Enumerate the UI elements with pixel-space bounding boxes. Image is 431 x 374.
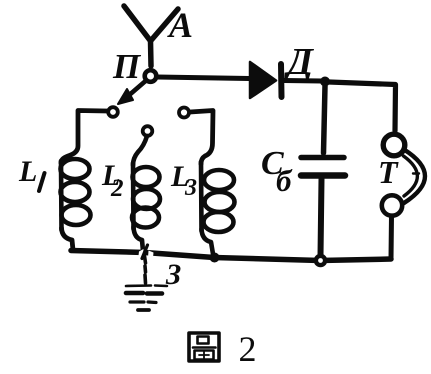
svg-text:П: П bbox=[112, 47, 142, 86]
svg-text:3: 3 bbox=[184, 175, 197, 201]
diode D bbox=[250, 62, 276, 98]
phone T top cup bbox=[383, 134, 405, 156]
switch contact 1 bbox=[108, 107, 118, 117]
coil L1 bbox=[59, 161, 64, 230]
wire L1 bottom to bus bbox=[62, 228, 74, 250]
phone headband arcs bbox=[404, 150, 425, 204]
junction node L3/bus bbox=[210, 253, 220, 263]
switch arrowhead bbox=[118, 89, 133, 104]
phone T bottom cup bbox=[382, 195, 402, 215]
svg-text:Д: Д bbox=[284, 41, 315, 83]
capacitor Cb bottom plate bbox=[301, 172, 345, 179]
svg-text:З: З bbox=[165, 258, 181, 291]
wire contact2 to L2 top bbox=[133, 136, 147, 165]
caption glyph 圖 bbox=[189, 333, 219, 361]
svg-text:2: 2 bbox=[110, 175, 124, 202]
wire capacitor bottom to bus bbox=[321, 179, 322, 256]
switch arm bbox=[124, 81, 146, 100]
svg-text:A: A bbox=[167, 5, 193, 45]
svg-text:L: L bbox=[18, 155, 37, 188]
wire junction down to capacitor bbox=[324, 86, 326, 153]
switch contact 3 bbox=[179, 108, 189, 118]
ring junction capacitor/bus bbox=[316, 256, 325, 265]
wire phone bottom to bus corner bbox=[389, 216, 395, 259]
wire diode to junction bbox=[284, 78, 322, 84]
coil L3 bbox=[199, 162, 204, 231]
svg-text:T: T bbox=[378, 154, 399, 190]
wire contact3 to L3 top bbox=[190, 111, 213, 165]
wire L3 bottom to bus bbox=[202, 229, 214, 254]
ground tap wire crossing bus bbox=[142, 245, 148, 259]
wire L2 bottom to bus bbox=[134, 227, 144, 251]
svg-text:б: б bbox=[276, 163, 293, 198]
bottom bus wire bbox=[71, 251, 391, 261]
switch contact 2 bbox=[143, 126, 153, 136]
switch П pivot circle bbox=[145, 70, 157, 82]
white notches at ground tap crossing bbox=[139, 249, 144, 258]
junction node after diode bbox=[320, 77, 330, 87]
coil L2 bbox=[131, 163, 136, 229]
ground bar 1 bbox=[126, 284, 167, 287]
svg-text:2: 2 bbox=[239, 329, 257, 369]
capacitor Cb top plate bbox=[301, 155, 344, 161]
ground bar 2 bbox=[126, 291, 162, 296]
wire: switch to diode bbox=[157, 77, 249, 79]
ground bar 3 bbox=[130, 300, 156, 304]
ground bar 4 bbox=[138, 308, 149, 312]
wire contact1 to L1 top bbox=[61, 111, 107, 164]
ground stem bbox=[145, 256, 146, 283]
antenna A bbox=[124, 6, 151, 66]
wire junction to right corner and down to phone bbox=[329, 82, 396, 131]
